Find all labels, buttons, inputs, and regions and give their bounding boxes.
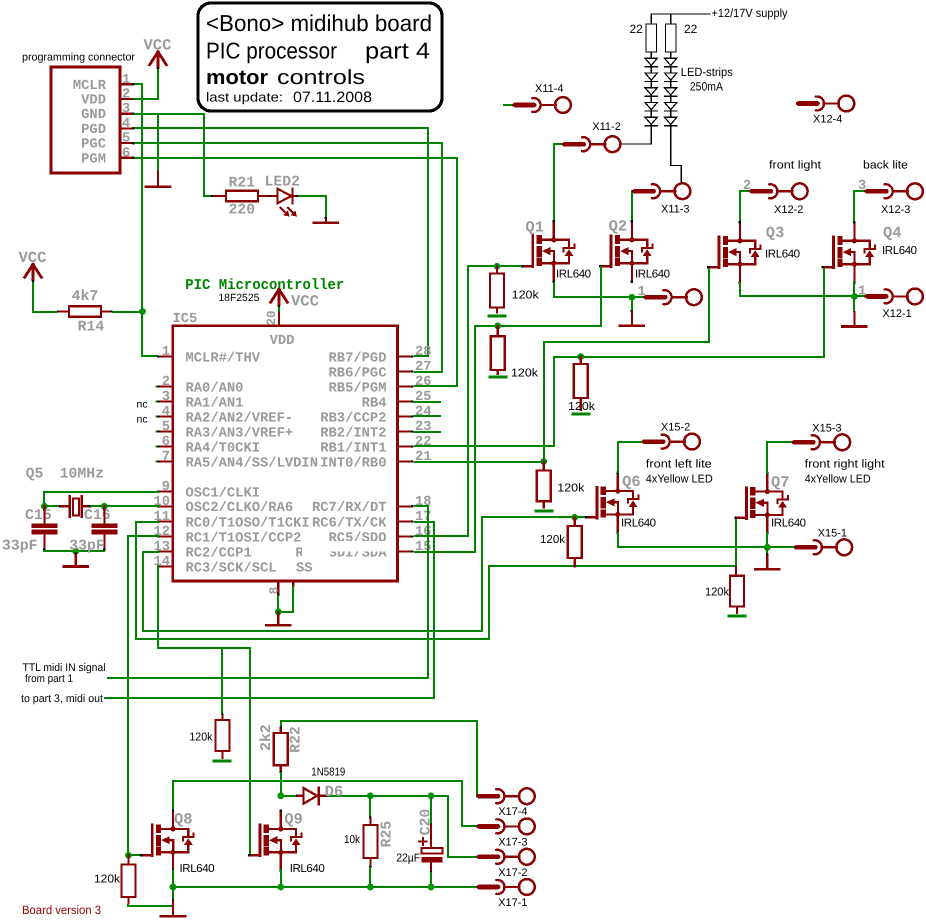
svg-text:X12-1: X12-1 [882, 308, 911, 320]
svg-text:C15: C15 [25, 508, 52, 524]
svg-text:120k: 120k [705, 587, 729, 599]
svg-text:2: 2 [162, 375, 170, 390]
svg-text:C20: C20 [419, 809, 435, 836]
svg-text:X12-2: X12-2 [774, 204, 803, 216]
svg-text:9: 9 [162, 480, 170, 495]
svg-text:120k: 120k [189, 732, 212, 744]
svg-text:5: 5 [162, 420, 170, 435]
svg-text:16: 16 [415, 525, 432, 540]
svg-text:LED-strips: LED-strips [681, 65, 733, 79]
svg-text:X11-4: X11-4 [535, 83, 564, 95]
svg-text:OSC2/CLKO/RA6: OSC2/CLKO/RA6 [186, 501, 294, 516]
svg-text:120k: 120k [568, 401, 595, 413]
svg-text:RA4/T0CKI: RA4/T0CKI [186, 441, 261, 456]
svg-text:IRL640: IRL640 [635, 269, 670, 281]
svg-text:RB6/PGC: RB6/PGC [329, 366, 387, 381]
svg-text:X12-4: X12-4 [813, 114, 842, 126]
svg-text:28: 28 [415, 345, 432, 360]
svg-text:MCLR#/THV: MCLR#/THV [186, 351, 261, 366]
svg-text:26: 26 [415, 375, 432, 390]
svg-text:VDD: VDD [270, 334, 295, 349]
svg-text:33pF: 33pF [69, 539, 105, 555]
svg-text:14: 14 [153, 555, 170, 570]
svg-text:Q5: Q5 [26, 467, 44, 483]
svg-text:07.11.2008: 07.11.2008 [293, 89, 372, 106]
svg-text:27: 27 [415, 360, 432, 375]
svg-text:33pF: 33pF [2, 539, 38, 555]
svg-text:X17-2: X17-2 [498, 867, 527, 879]
svg-text:22µF: 22µF [396, 853, 420, 865]
svg-text:Q7: Q7 [771, 474, 790, 492]
svg-text:12: 12 [153, 525, 170, 540]
svg-text:RC3/SCK/SCL: RC3/SCK/SCL [186, 561, 277, 576]
svg-text:programming connector: programming connector [22, 52, 135, 64]
svg-text:C16: C16 [84, 508, 111, 524]
svg-text:IRL640: IRL640 [621, 518, 656, 530]
svg-text:22: 22 [630, 22, 644, 36]
svg-text:RB5/PGM: RB5/PGM [329, 381, 387, 396]
svg-text:X12-3: X12-3 [881, 204, 910, 216]
svg-text:Board version 3: Board version 3 [22, 903, 101, 917]
svg-text:PGD: PGD [81, 123, 106, 138]
svg-text:IRL640: IRL640 [771, 518, 806, 530]
svg-text:front light: front light [769, 160, 822, 172]
svg-text:4xYellow LED: 4xYellow LED [805, 474, 871, 486]
svg-text:PGC: PGC [81, 138, 106, 153]
svg-text:4k7: 4k7 [72, 289, 99, 305]
svg-text:RA5/AN4/SS/LVDIN: RA5/AN4/SS/LVDIN [186, 456, 318, 471]
svg-text:22: 22 [415, 435, 432, 450]
svg-text:1: 1 [122, 73, 130, 88]
svg-text:LED2: LED2 [265, 174, 301, 190]
svg-text:motor: motor [206, 66, 268, 89]
svg-text:10MHz: 10MHz [60, 467, 104, 483]
svg-text:RB7/PGD: RB7/PGD [329, 351, 387, 366]
svg-text:3: 3 [122, 102, 130, 117]
svg-text:18: 18 [415, 495, 432, 510]
svg-text:X15-3: X15-3 [812, 423, 841, 435]
svg-text:120k: 120k [557, 483, 584, 495]
svg-text:22: 22 [684, 22, 698, 36]
svg-text:1N5819: 1N5819 [311, 767, 345, 779]
svg-text:7: 7 [162, 450, 170, 465]
svg-text:to part 3, midi out: to part 3, midi out [21, 693, 103, 705]
svg-text:8: 8 [268, 587, 282, 595]
svg-text:250mA: 250mA [690, 80, 723, 94]
svg-text:R22: R22 [289, 726, 305, 753]
svg-text:nc: nc [137, 399, 148, 411]
svg-text:front left lite: front left lite [646, 459, 712, 471]
svg-text:Q9: Q9 [284, 811, 303, 829]
svg-text:5: 5 [122, 132, 130, 147]
svg-text:OSC1/CLKI: OSC1/CLKI [186, 486, 261, 501]
svg-text:PIC processor: PIC processor [206, 38, 337, 64]
svg-text:R14: R14 [78, 320, 105, 336]
svg-text:RB2/INT2: RB2/INT2 [320, 426, 386, 441]
svg-text:120k: 120k [94, 874, 120, 886]
svg-text:6: 6 [162, 435, 170, 450]
svg-text:20: 20 [265, 310, 279, 325]
svg-text:Q8: Q8 [174, 811, 193, 829]
svg-text:back lite: back lite [863, 160, 908, 172]
svg-text:<Bono> midihub board: <Bono> midihub board [206, 10, 432, 36]
svg-text:RA1/AN1: RA1/AN1 [186, 396, 244, 411]
svg-text:X15-1: X15-1 [818, 528, 847, 540]
svg-text:IRL640: IRL640 [882, 245, 917, 257]
svg-text:VCC: VCC [291, 293, 319, 311]
svg-text:PIC Microcontroller: PIC Microcontroller [185, 277, 344, 294]
svg-text:24: 24 [415, 405, 432, 420]
svg-text:RB1/INT1: RB1/INT1 [320, 441, 386, 456]
svg-text:IRL640: IRL640 [180, 863, 215, 875]
svg-text:last update:: last update: [206, 90, 283, 105]
svg-text:Q4: Q4 [883, 224, 902, 242]
svg-text:RB3/CCP2: RB3/CCP2 [320, 411, 386, 426]
svg-text:4: 4 [162, 405, 170, 420]
svg-text:controls: controls [277, 66, 365, 89]
svg-text:PGM: PGM [81, 152, 106, 167]
svg-text:RA2/AN2/VREF-: RA2/AN2/VREF- [186, 411, 294, 426]
svg-text:part 4: part 4 [365, 38, 430, 64]
svg-text:120k: 120k [512, 290, 539, 302]
svg-text:IRL640: IRL640 [290, 863, 325, 875]
svg-text:10: 10 [153, 495, 170, 510]
svg-text:Q1: Q1 [525, 219, 544, 237]
svg-text:IRL640: IRL640 [556, 269, 591, 281]
svg-text:X17-3: X17-3 [498, 836, 527, 848]
svg-text:18F2525: 18F2525 [218, 292, 259, 304]
svg-text:X11-2: X11-2 [592, 121, 621, 133]
svg-text:120k: 120k [540, 534, 565, 546]
svg-text:220: 220 [229, 203, 256, 219]
svg-text:X15-2: X15-2 [661, 422, 690, 434]
svg-text:RC2/CCP1: RC2/CCP1 [186, 546, 252, 561]
svg-text:VDD: VDD [81, 94, 106, 109]
svg-text:RC7/RX/DT: RC7/RX/DT [312, 501, 387, 516]
svg-text:Q6: Q6 [622, 473, 641, 491]
svg-text:GND: GND [81, 108, 106, 123]
svg-text:R25: R25 [380, 821, 396, 848]
svg-text:SS: SS [296, 562, 313, 577]
svg-text:R21: R21 [229, 176, 256, 192]
svg-text:RB4: RB4 [362, 396, 387, 411]
svg-text:D6: D6 [325, 783, 344, 801]
svg-text:nc: nc [137, 414, 148, 426]
svg-text:10k: 10k [344, 834, 360, 846]
svg-text:X11-3: X11-3 [661, 204, 690, 216]
svg-text:2: 2 [122, 88, 130, 103]
svg-text:RC1/T1OSI/CCP2: RC1/T1OSI/CCP2 [186, 531, 302, 546]
svg-text:INT0/RB0: INT0/RB0 [320, 456, 386, 471]
svg-text:120k: 120k [511, 368, 538, 380]
svg-text:X17-4: X17-4 [498, 806, 527, 818]
svg-text:RC6/TX/CK: RC6/TX/CK [312, 516, 387, 531]
svg-text:Q3: Q3 [766, 224, 785, 242]
svg-text:1: 1 [162, 345, 170, 360]
svg-text:from part 1: from part 1 [25, 673, 73, 685]
svg-text:RA0/AN0: RA0/AN0 [186, 381, 244, 396]
svg-text:2k2: 2k2 [259, 724, 275, 751]
svg-text:X17-1: X17-1 [498, 897, 527, 909]
svg-text:RA3/AN3/VREF+: RA3/AN3/VREF+ [186, 426, 294, 441]
svg-text:RC0/T1OSO/T1CKI: RC0/T1OSO/T1CKI [186, 516, 310, 531]
svg-text:4xYellow LED: 4xYellow LED [646, 474, 713, 486]
svg-text:4: 4 [122, 117, 130, 132]
svg-text:Q2: Q2 [609, 218, 628, 236]
svg-text:MCLR: MCLR [73, 79, 107, 94]
svg-text:front right light: front right light [805, 459, 886, 471]
svg-text:IC5: IC5 [173, 312, 198, 327]
svg-text:+12/17V supply: +12/17V supply [712, 6, 788, 20]
svg-text:IRL640: IRL640 [765, 249, 800, 261]
svg-text:6: 6 [122, 146, 130, 161]
svg-text:3: 3 [162, 390, 170, 405]
